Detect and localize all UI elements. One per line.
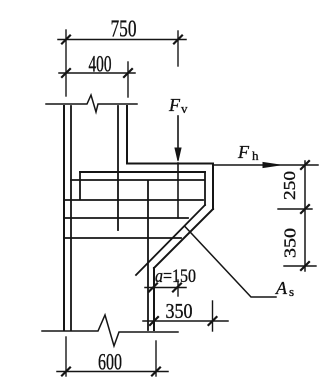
svg-text:350: 350 [280, 228, 299, 258]
svg-text:F: F [168, 95, 181, 115]
Fv arrowhead [175, 148, 181, 161]
As leader line [185, 226, 277, 297]
svg-text:400: 400 [89, 52, 112, 77]
corbel bar row 4 [64, 217, 188, 219]
dimension 400 left tick [62, 69, 70, 77]
svg-text:A: A [275, 278, 288, 298]
svg-text:350: 350 [166, 299, 193, 323]
svg-text:h: h [252, 148, 259, 163]
column left face [63, 106, 65, 330]
corbel outer vertical face [212, 164, 214, 210]
right dim tick top [301, 161, 309, 169]
dimension 750 right extension line [177, 31, 179, 66]
column left rebar [70, 106, 72, 330]
svg-text:750: 750 [111, 17, 137, 43]
600 left extension line [65, 337, 67, 376]
a=150 right extension line [177, 280, 179, 296]
dimension 750 left tick [62, 36, 70, 44]
600 right extension line [155, 341, 157, 376]
right dim extension bottom [284, 265, 316, 267]
bottom break line of column [42, 315, 178, 346]
lower column right face [153, 268, 155, 330]
Fh arrowhead [263, 163, 280, 168]
corbel bent bar slope [136, 205, 205, 275]
Fv load line [177, 116, 179, 159]
350 bottom left tick [150, 317, 158, 325]
Fv load line inside corbel [177, 163, 179, 218]
right dim tick bottom [301, 262, 309, 270]
dimension 400 right tick [124, 69, 132, 77]
corbel stirrup vertical inner [204, 172, 206, 205]
corbel sloped face [154, 209, 213, 268]
dimension 350 bottom line [143, 320, 228, 322]
svg-text:s: s [289, 284, 294, 299]
lower column right rebar [147, 181, 149, 330]
corbel bar row 2 [71, 179, 204, 181]
dimension a=150 line [145, 287, 186, 289]
a=150 right tick [173, 284, 181, 292]
dimension 400 right extension line [127, 62, 129, 97]
dimension 400 line [59, 72, 135, 74]
350 bottom right extension line [212, 301, 214, 331]
upper column right face [126, 106, 128, 164]
dimension 750 left extension line [65, 30, 67, 96]
dimension 600 line [57, 371, 168, 373]
350 bottom right tick [209, 317, 217, 325]
upper column right rebar [117, 106, 119, 230]
corbel main bar left anchorage bend [79, 172, 81, 199]
svg-text:600: 600 [98, 350, 122, 375]
top break line of column [46, 95, 137, 112]
Fh force line [213, 164, 318, 166]
corbel top surface [127, 163, 213, 165]
svg-text:a=150: a=150 [155, 266, 196, 287]
a=150 left tick [149, 284, 157, 292]
svg-text:250: 250 [280, 171, 299, 200]
dimension 750 line [58, 39, 186, 41]
600 right tick [152, 368, 160, 376]
600 left tick [62, 368, 70, 376]
column tie bar row [64, 237, 181, 239]
right dim extension mid [278, 208, 312, 210]
corbel main bar As top [80, 171, 205, 173]
right dim tick mid [301, 205, 309, 213]
svg-text:v: v [181, 101, 188, 116]
corbel bar row 3 [64, 199, 203, 201]
svg-text:F: F [237, 142, 250, 162]
right dimension line vertical [304, 161, 306, 271]
dimension 750 right tick [174, 36, 182, 44]
